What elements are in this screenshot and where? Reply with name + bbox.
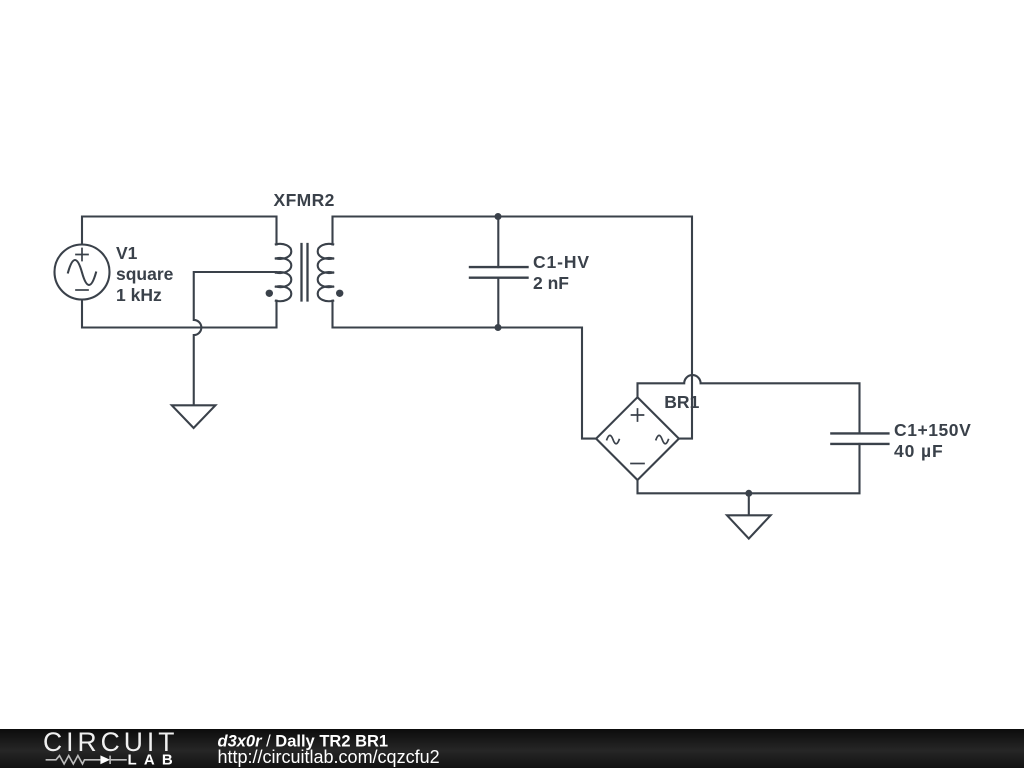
wire top-left (V1 top to XFMR2 primary top lead) xyxy=(82,217,277,245)
ground (right) xyxy=(727,515,771,538)
junction node (output bottom / ground) xyxy=(745,490,752,497)
svg-text:BR1: BR1 xyxy=(664,392,699,412)
junction node (bottom, C1-HV bottom) xyxy=(495,324,502,331)
svg-text:LAB: LAB xyxy=(128,752,180,768)
transformer XFMR2 secondary winding xyxy=(318,244,334,301)
svg-text:square: square xyxy=(116,264,174,284)
bridge rectifier BR1 xyxy=(596,397,679,480)
junction node (top, C1-HV top) xyxy=(495,213,502,220)
voltage source V1 xyxy=(55,245,110,300)
wire top (secondary top, across to bridge right arm) xyxy=(333,217,693,439)
transformer secondary phase dot xyxy=(336,290,343,297)
wire bridge + output to C1+150V top (with hop over vertical wire) xyxy=(638,375,860,433)
footer bar xyxy=(0,729,1024,768)
ground (left) xyxy=(172,405,216,428)
capacitor C1-HV xyxy=(470,217,528,328)
wire ground stub (right) xyxy=(748,493,750,515)
svg-text:C1+150V: C1+150V xyxy=(894,420,971,440)
svg-text:http://circuitlab.com/cqzcfu2: http://circuitlab.com/cqzcfu2 xyxy=(218,747,440,767)
wire center tap to ground (with hop over bottom wire) xyxy=(194,272,277,405)
CircuitLab logo resistor-diode glyph xyxy=(46,756,127,764)
transformer XFMR2 primary winding xyxy=(276,244,292,301)
wire bridge - output bottom to C1+150V bottom xyxy=(638,444,860,493)
wire bottom (secondary bottom across to bridge left arm) xyxy=(333,301,597,439)
svg-text:V1: V1 xyxy=(116,243,138,263)
wire bottom-left (V1 bottom to XFMR2 primary bottom lead) xyxy=(82,300,277,328)
svg-text:1 kHz: 1 kHz xyxy=(116,285,162,305)
svg-text:C1-HV: C1-HV xyxy=(533,252,590,272)
svg-text:40 µF: 40 µF xyxy=(894,441,944,461)
svg-text:XFMR2: XFMR2 xyxy=(274,190,335,210)
transformer primary phase dot xyxy=(266,290,273,297)
transformer XFMR2 core xyxy=(302,244,308,301)
capacitor C1+150V xyxy=(831,433,888,444)
svg-text:2 nF: 2 nF xyxy=(533,273,569,293)
